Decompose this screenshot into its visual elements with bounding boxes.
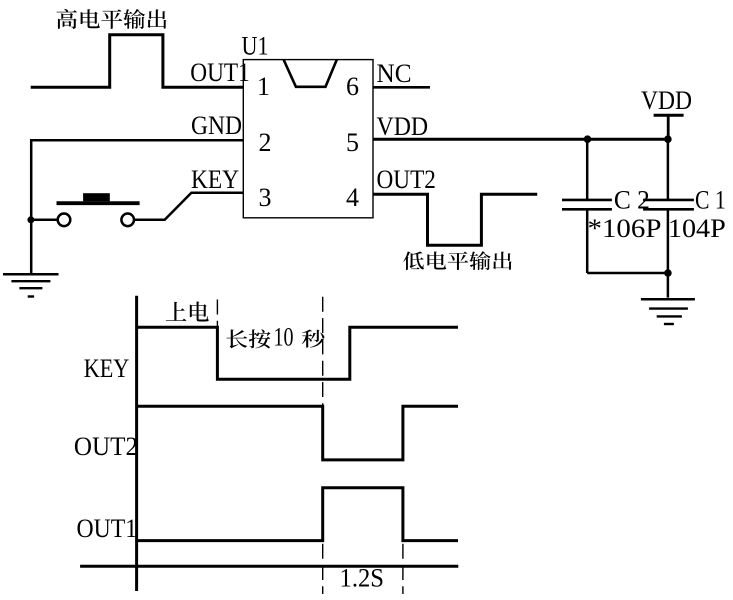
label 高电平输出 (high level output) <box>57 9 167 29</box>
svg-text:OUT2: OUT2 <box>74 432 138 461</box>
pin label GND <box>191 111 242 140</box>
OUT1 timing waveform <box>137 488 458 541</box>
svg-text:KEY: KEY <box>191 165 239 194</box>
pin 5 number <box>346 128 359 157</box>
push button right terminal <box>121 214 134 227</box>
wire GND horizontal <box>30 139 243 142</box>
capacitor C2 <box>562 139 612 273</box>
wire GND vertical <box>30 139 33 273</box>
timing axis horizontal <box>80 565 458 568</box>
node junction bottom <box>664 269 672 277</box>
pin label KEY <box>191 165 239 194</box>
VDD net label <box>641 86 692 115</box>
svg-text:NC: NC <box>377 59 412 88</box>
svg-text:2: 2 <box>259 128 272 157</box>
VDD power symbol <box>654 115 684 139</box>
dashed marker t1 upper <box>322 297 324 407</box>
svg-text:4: 4 <box>346 183 359 212</box>
pin label OUT2 <box>377 165 436 194</box>
pin label VDD <box>377 112 429 141</box>
label C1 <box>695 186 726 215</box>
U1 notch <box>284 60 337 87</box>
label OUT2 timing <box>74 432 138 461</box>
dashed marker t1 lower <box>322 544 324 594</box>
svg-text:OUT2: OUT2 <box>377 165 436 194</box>
wire junction to switch <box>30 219 58 222</box>
value label *106P <box>588 214 662 243</box>
pin 2 number <box>259 128 272 157</box>
OUT2 low-level pulse waveform <box>373 194 537 245</box>
svg-text:1.2S: 1.2S <box>340 564 385 593</box>
label 上电 (power on) <box>166 302 209 322</box>
pin 3 number <box>259 183 272 212</box>
wire NC stub <box>373 86 430 89</box>
svg-text:GND: GND <box>191 111 242 140</box>
svg-text:VDD: VDD <box>377 112 429 141</box>
svg-text:5: 5 <box>346 128 359 157</box>
value label 104P <box>668 214 726 243</box>
svg-text:KEY: KEY <box>84 354 130 383</box>
label 长按 (long press) <box>226 329 270 348</box>
pin label OUT1 <box>190 58 250 87</box>
label 10 in 长按10 秒 <box>274 323 294 352</box>
svg-text:U1: U1 <box>242 32 269 61</box>
label OUT1 timing <box>77 514 138 543</box>
dashed marker t2 <box>402 544 404 594</box>
KEY timing waveform <box>137 327 458 379</box>
label C2 <box>614 186 650 215</box>
pin 4 number <box>346 183 359 212</box>
wire switch to KEY pin <box>134 193 243 220</box>
svg-text:10: 10 <box>274 323 294 352</box>
svg-text:*106P: *106P <box>588 214 662 243</box>
node junction C2 <box>584 135 592 143</box>
push button left terminal <box>58 214 71 227</box>
svg-text:1: 1 <box>257 72 270 101</box>
svg-text:OUT1: OUT1 <box>190 58 250 87</box>
push button bar <box>57 201 140 205</box>
pin 1 number <box>257 72 270 101</box>
svg-text:VDD: VDD <box>641 86 692 115</box>
dashed marker at power-on <box>216 300 218 328</box>
label 低电平输出 (low level output) <box>403 251 512 270</box>
ground symbol right <box>641 299 695 324</box>
OUT2 timing waveform <box>137 406 458 460</box>
OUT1 high-level pulse waveform <box>31 35 244 88</box>
wire VDD rail <box>373 138 668 141</box>
svg-text:3: 3 <box>259 183 272 212</box>
ground symbol left <box>3 274 59 296</box>
wire C2 to C1 bottom <box>587 272 668 275</box>
pin label NC <box>377 59 412 88</box>
capacitor C1 <box>643 139 694 297</box>
label 秒 (seconds) <box>302 329 325 347</box>
node junction at switch <box>27 216 34 223</box>
svg-text:C 1: C 1 <box>695 186 726 215</box>
label KEY timing <box>84 354 130 383</box>
svg-text:OUT1: OUT1 <box>77 514 138 543</box>
push button actuator <box>83 193 110 201</box>
svg-text:6: 6 <box>346 72 359 101</box>
pin 6 number <box>346 72 359 101</box>
U1 reference designator <box>242 32 269 61</box>
node junction C1 <box>664 135 672 143</box>
timing axis vertical <box>135 296 138 591</box>
svg-text:104P: 104P <box>668 214 726 243</box>
op-amp U1 body <box>243 60 373 218</box>
label 1.2S <box>340 564 385 593</box>
